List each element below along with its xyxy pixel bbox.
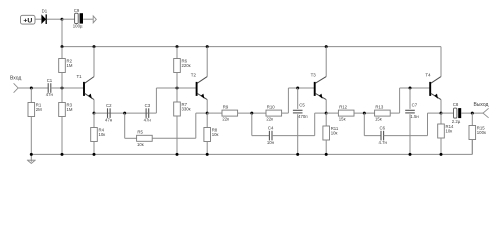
wire to T4 emitter node [428,112,442,114]
wire C5 to ground [297,114,299,154]
wire riser R13 to base line [399,88,401,113]
svg-text:220к: 220к [182,63,191,68]
wire base line to T3 [288,87,314,89]
resistor R9 22k [222,105,238,122]
power input +U box [21,15,36,24]
resistor R6 220k [174,47,191,88]
svg-text:C1: C1 [47,78,53,83]
node R11 ground [325,153,328,156]
wire R5 right lead [152,137,196,139]
node R1 ground [30,153,33,156]
resistor R3 1M [59,88,73,154]
capacitor C9 electrolytic 100u [73,8,83,29]
wire node to C9 [62,18,75,20]
svg-text:C8: C8 [453,102,459,107]
svg-text:22к: 22к [266,117,273,122]
node R7 ground [176,153,179,156]
wire C7 to ground [409,114,411,154]
wire R5 riser to T2 emitter [195,113,197,138]
svg-text:R10: R10 [267,105,275,110]
svg-text:T4: T4 [425,72,431,77]
svg-text:T1: T1 [77,74,83,79]
svg-text:T3: T3 [311,72,317,77]
svg-text:10к: 10к [99,132,106,137]
wire C1 to bias node [51,87,84,89]
capacitor C6 4.7n [379,125,388,144]
capacitor C2 47n [105,103,113,122]
svg-text:100к: 100к [477,130,486,135]
node input R1 [30,87,33,90]
node rail T1 collector [93,45,96,48]
wire R10 right lead [282,112,289,114]
svg-text:1M: 1M [67,107,73,112]
node rail T2 collector [206,45,209,48]
wire R5 left lead [125,137,137,139]
wire R13 right lead [390,112,399,114]
svg-text:R5: R5 [137,130,143,135]
wire C4 to riser [272,135,315,137]
resistor R15 100k [469,113,486,154]
wire R12 to node [354,112,375,114]
wire C6 to riser [384,135,428,137]
transistor T4 [425,47,441,114]
svg-text:C9: C9 [74,8,80,13]
node R6 R7 T2 base [176,87,179,90]
node R14 ground [440,153,443,156]
svg-text:10н: 10н [267,140,275,145]
svg-text:10к: 10к [137,142,144,147]
node T4 emitter [440,112,443,115]
resistor R13 15k [375,105,391,122]
node R8 ground [206,153,209,156]
node C2 C3 R5 [123,112,126,115]
svg-text:330к: 330к [182,107,191,112]
svg-text:4.7н: 4.7н [379,140,388,145]
wire to T2 emitter node [196,112,207,114]
svg-text:15к: 15к [339,117,346,122]
wire feedback riser to T4 emitter [427,113,429,136]
svg-text:C5: C5 [299,102,305,107]
capacitor C3 47n [144,103,152,122]
svg-text:10к: 10к [212,132,219,137]
wire C4 drop [251,113,253,136]
transistor T3 [311,47,327,114]
wire T2 emitter to R9 [207,112,222,114]
node R12 R13 C6 [363,112,366,115]
node C7 T4 base [409,87,412,90]
wire riser to base line [155,88,157,113]
svg-text:R13: R13 [375,105,383,110]
node R9 R10 C4 [250,112,253,115]
node R2 R3 T1 base [61,87,64,90]
svg-text:C4: C4 [268,125,274,130]
svg-text:R9: R9 [223,105,229,110]
wire C3 to riser corner [149,112,157,114]
svg-text:Вход: Вход [10,76,21,82]
wire C6 drop [363,113,365,136]
node C7 ground [409,153,412,156]
svg-text:R12: R12 [339,105,347,110]
wire to T3 emitter node [315,112,327,114]
svg-text:15к: 15к [375,117,382,122]
svg-text:2.2µ: 2.2µ [452,119,461,124]
wire R9 to node [238,112,266,114]
node R4 ground [93,153,96,156]
svg-text:470п: 470п [298,114,308,119]
node rail R6 [176,45,179,48]
svg-text:D1: D1 [42,8,48,13]
resistor R8 10k [204,113,219,154]
svg-text:22к: 22к [222,117,229,122]
wire base line to T4 [400,87,431,89]
resistor R7 330k [174,88,191,154]
node R3 ground [61,153,64,156]
node +U / C9 [61,18,64,21]
svg-text:10к: 10к [446,129,453,134]
capacitor C7 1.5n shunt [409,88,411,109]
svg-text:T2: T2 [191,73,197,78]
node T3 emitter [325,112,328,115]
wire C9 to supply arrow [83,18,93,20]
wire +U box to D1 [35,18,41,20]
capacitor C5 470p shunt [297,88,299,109]
svg-text:2M: 2M [36,107,42,112]
svg-text:C6: C6 [380,125,386,130]
transistor T1 [77,47,95,114]
wire T3 emitter to R12 [326,112,338,114]
resistor R14 10k [438,113,454,154]
diode D1 [41,8,47,24]
wire T4 emitter to C8 [441,112,454,114]
top supply rail [62,46,441,48]
resistor R2 1M [59,47,73,88]
supply rail arrow terminal [93,16,96,23]
svg-text:1M: 1M [67,63,73,68]
node C5 T3 base [296,87,299,90]
node rail T3 collector [325,45,328,48]
capacitor C4 10n [267,125,275,144]
wire input to R1 node [18,87,49,89]
wire C4 left lead [252,135,269,137]
svg-text:100µ: 100µ [73,24,83,29]
wire +U drop to top rail [61,19,63,46]
capacitor C1 47n [46,78,54,97]
resistor R5 10k [137,130,153,147]
input connector [14,83,19,92]
capacitor C8 electrolytic 2.2u [452,102,461,124]
svg-text:Выход: Выход [474,102,489,108]
wire base line to T2 [156,87,196,89]
svg-text:47н: 47н [105,117,113,122]
svg-text:+U: +U [23,17,32,24]
wire riser R10 to base line [287,88,289,113]
svg-text:47н: 47н [144,117,152,122]
ground rail [31,153,472,155]
svg-text:47н: 47н [46,92,54,97]
svg-text:1.5н: 1.5н [410,114,419,119]
svg-text:C7: C7 [412,102,418,107]
node T1 emitter [93,112,96,115]
resistor R12 15k [338,105,354,122]
node C5 ground [296,153,299,156]
wire feedback riser to T3 emitter [314,113,316,136]
transistor T2 [191,47,207,114]
svg-text:10к: 10к [331,131,338,136]
wire D1 to node +U rail drop [47,18,62,20]
wire R5 drop [124,113,126,138]
resistor R4 10k [91,113,106,154]
wire R15 to ground corner [471,140,473,155]
resistor R11 10k [323,113,339,154]
wire C8 to output [461,112,483,114]
resistor R1 2M [28,88,42,154]
svg-text:C2: C2 [106,103,112,108]
node R15 output [471,112,474,115]
output connector [483,108,489,118]
svg-text:C3: C3 [145,103,151,108]
resistor R10 22k [266,105,282,122]
wire T1 emitter line [94,112,149,114]
node T2 emitter [206,112,209,115]
node rail R2 [61,45,64,48]
ground symbol [27,154,36,163]
wire C6 left lead [364,135,381,137]
